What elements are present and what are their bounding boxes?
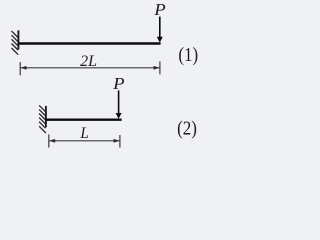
dimension right tick (L)	[119, 135, 121, 148]
force P arrow (beam 1) shaft	[159, 17, 161, 39]
dimension left arrowhead (L)	[49, 139, 55, 143]
dimension left arrowhead	[21, 66, 27, 70]
beam 2 (length L)	[46, 119, 122, 121]
svg-text:P: P	[112, 74, 125, 93]
dimension line 2L	[20, 67, 160, 69]
fixed wall support (beam 1) face line	[17, 30, 19, 49]
force P arrow (beam 2) head	[116, 113, 122, 119]
dimension left tick (L)	[48, 134, 50, 147]
svg-text:(2): (2)	[177, 117, 197, 140]
svg-text:(1): (1)	[178, 44, 198, 67]
force P arrow (beam 1) head	[157, 37, 163, 43]
svg-text:P: P	[153, 0, 166, 19]
svg-text:2L: 2L	[80, 53, 97, 70]
fixed wall support (beam 1) hatching	[12, 31, 19, 55]
dimension line L	[49, 140, 120, 142]
dimension right arrowhead	[154, 66, 160, 70]
dimension right arrowhead (L)	[114, 139, 120, 143]
dimension left tick	[19, 62, 21, 75]
svg-text:L: L	[79, 125, 88, 142]
beam 1 (length 2L)	[18, 42, 160, 44]
fixed wall support (beam 2) face line	[45, 106, 47, 127]
force P arrow (beam 2) shaft	[118, 90, 120, 114]
dimension right tick	[159, 61, 161, 74]
fixed wall support (beam 2) hatching	[39, 105, 46, 133]
